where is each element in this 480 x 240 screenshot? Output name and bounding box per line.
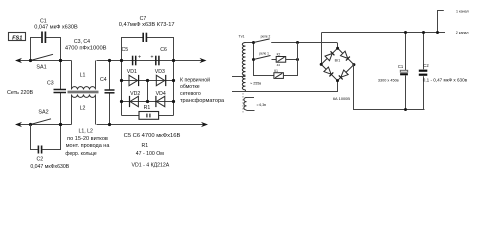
node dot bridge bottom xyxy=(336,79,339,82)
wire capacitor C2 branch xyxy=(423,33,425,110)
node dot bridge top xyxy=(336,47,339,50)
svg-text:Сеть 220В: Сеть 220В xyxy=(7,90,33,96)
svg-text:VD3: VD3 xyxy=(155,69,165,75)
svg-text:обмотке: обмотке xyxy=(180,84,200,90)
wire K1 to return bus xyxy=(283,43,297,76)
switch SA2 xyxy=(31,119,52,125)
svg-text:0,47мкФ х63В К73-17: 0,47мкФ х63В К73-17 xyxy=(119,22,175,28)
node dot C3 top xyxy=(59,59,62,62)
wire diode block right column xyxy=(173,61,175,116)
node dot C1 top xyxy=(404,31,407,34)
svg-text:FS1: FS1 xyxy=(12,35,22,41)
wire transformer bottom AC return xyxy=(232,90,246,92)
resistor R1 wires xyxy=(122,115,174,117)
wire diode block center column xyxy=(147,81,149,102)
svg-text:C1: C1 xyxy=(398,64,404,69)
node dot relay bus middle xyxy=(252,58,255,61)
transformer 6.3v winding xyxy=(244,98,247,110)
bridge diode top-left (anode left, cathode toward top) xyxy=(325,51,334,60)
svg-text:L2: L2 xyxy=(80,105,86,111)
svg-text:VD4: VD4 xyxy=(156,91,166,97)
svg-text:L1, L2: L1, L2 xyxy=(78,129,93,135)
wire K2 to bus xyxy=(286,59,298,61)
wire VD1 VD3 row xyxy=(122,80,174,82)
bridge Br1 diamond xyxy=(321,48,354,80)
wire top mains rail left segment with input arrow xyxy=(15,58,72,63)
svg-text:C2: C2 xyxy=(36,157,43,163)
svg-text:К первичной: К первичной xyxy=(180,77,210,84)
wire primary tap stub xyxy=(232,76,246,78)
wire AC return to bridge xyxy=(246,81,338,92)
wire relay bus vertical xyxy=(254,43,274,76)
svg-text:2 канал: 2 канал xyxy=(456,31,469,35)
relay contact rele2 blade xyxy=(254,39,270,43)
svg-text:C6: C6 xyxy=(160,47,167,53)
svg-text:1 канал: 1 канал xyxy=(456,9,469,13)
wire 6.3v top stub xyxy=(247,97,255,99)
wire rele2 to bridge xyxy=(271,43,337,49)
capacitor C6 plates xyxy=(156,56,159,66)
svg-text:Br1: Br1 xyxy=(335,59,341,63)
svg-text:R1: R1 xyxy=(144,105,151,111)
node dot relay bus top xyxy=(252,41,255,44)
node dot bridge right xyxy=(352,63,355,66)
wire channel 1 stub xyxy=(438,11,444,33)
resistor R1 body xyxy=(139,112,159,120)
node dot C3 bottom xyxy=(59,123,62,126)
capacitor C1 branch wires xyxy=(31,38,61,61)
svg-text:+: + xyxy=(150,54,153,60)
svg-text:К1: К1 xyxy=(274,69,278,73)
node dot C7 left junction xyxy=(120,59,123,62)
svg-text:К2: К2 xyxy=(277,53,281,57)
switch SA1 xyxy=(31,54,54,60)
capacitor C4 vertical wires xyxy=(109,61,111,125)
svg-text:C3, C4: C3, C4 xyxy=(74,39,90,45)
bridge diode bottom-left (anode left, cathode toward bottom) xyxy=(324,67,333,76)
svg-text:0,047 мкФ х630В: 0,047 мкФ х630В xyxy=(34,25,78,31)
capacitor C2 plates xyxy=(38,146,41,154)
svg-text:по 15-20 витков: по 15-20 витков xyxy=(67,136,108,142)
wire top mains rail right segment with output arrow xyxy=(97,58,207,63)
wire bottom mains rail left segment with input arrow xyxy=(15,122,72,127)
node dot C4 top xyxy=(108,59,111,62)
capacitor C2 right plates xyxy=(419,70,428,76)
relay contact rele1 blade xyxy=(254,56,271,60)
svg-text:С5 С6 4700 мкФх16В: С5 С6 4700 мкФх16В xyxy=(124,133,181,139)
svg-text:R1: R1 xyxy=(141,143,148,149)
transformer core dashed xyxy=(242,93,244,113)
node dot VD row2 left xyxy=(120,100,123,103)
node dot bridge left xyxy=(320,63,323,66)
node dot output top xyxy=(172,59,175,62)
diode VD3 xyxy=(156,75,165,86)
svg-text:сетевого: сетевого xyxy=(180,91,201,97)
svg-text:C3: C3 xyxy=(47,81,54,87)
diode VD2 xyxy=(130,96,139,107)
wire VD2 VD4 row xyxy=(122,101,174,103)
capacitor C1 right plates xyxy=(400,70,408,75)
wire C5 C6 row xyxy=(122,60,174,62)
svg-text:С2: С2 xyxy=(423,63,429,68)
svg-text:≈ 255в: ≈ 255в xyxy=(250,81,261,85)
bridge diode bottom-right (cathode toward bottom) xyxy=(339,70,348,79)
svg-text:SA2: SA2 xyxy=(38,109,48,115)
transformer primary winding xyxy=(242,43,245,90)
node dot SA2 right xyxy=(59,123,62,126)
node dot SA2 pivot xyxy=(29,123,32,126)
capacitor C7 branch wires xyxy=(122,38,174,61)
node dot VD row2 right xyxy=(172,100,175,103)
svg-text:C4: C4 xyxy=(100,77,107,83)
relay coil K1 xyxy=(274,73,284,79)
capacitor C3 vertical wires xyxy=(60,61,62,125)
svg-text:4700 пФх1000В: 4700 пФх1000В xyxy=(65,46,107,52)
relay coil K2 xyxy=(276,57,286,63)
svg-text:≈ 6,3в: ≈ 6,3в xyxy=(257,103,267,107)
node dot SA1 pivot xyxy=(29,59,32,62)
svg-text:L1: L1 xyxy=(80,73,86,79)
svg-text:Тv1: Тv1 xyxy=(239,34,245,38)
node dot VD row2 center xyxy=(146,100,149,103)
node dot return bus middle xyxy=(296,58,299,61)
wire diode block left column xyxy=(121,61,123,116)
svg-text:ферр. кольце: ферр. кольце xyxy=(65,151,96,157)
node dot C1 bottom xyxy=(404,108,407,111)
capacitor C4 plates xyxy=(105,90,115,93)
svg-text:0,047 мкФх630В: 0,047 мкФх630В xyxy=(30,164,69,170)
capacitor C3 plates xyxy=(54,90,67,93)
diode VD4 xyxy=(156,96,165,107)
choke core lines xyxy=(68,91,99,93)
svg-text:трансформатора: трансформатора xyxy=(180,98,225,104)
svg-text:VD1: VD1 xyxy=(127,69,137,75)
capacitor C1 plates xyxy=(42,32,45,44)
capacitor C5 plates xyxy=(133,56,136,66)
svg-text:реле 2: реле 2 xyxy=(261,34,271,38)
svg-text:44: 44 xyxy=(277,63,281,67)
node dot feed junction xyxy=(296,41,299,44)
wire bottom mains rail right segment with output arrow xyxy=(97,122,209,127)
wire 6.3v bottom stub xyxy=(247,110,255,112)
svg-text:монт. провода на: монт. провода на xyxy=(66,143,111,149)
bridge diode top-right (anode top, cathode toward right) xyxy=(341,51,350,60)
svg-text:реле 1: реле 1 xyxy=(259,52,269,56)
svg-text:VD2: VD2 xyxy=(130,91,140,97)
wire bridge minus vertical xyxy=(320,33,322,65)
svg-text:6А 1000В: 6А 1000В xyxy=(333,96,350,101)
capacitor C7 plates xyxy=(143,33,146,42)
node dot C4 bottom xyxy=(108,123,111,126)
choke L1 winding xyxy=(72,61,96,90)
wire capacitor C1 branch xyxy=(405,33,407,110)
svg-text:3300 х 450в: 3300 х 450в xyxy=(378,78,399,82)
choke L2 winding xyxy=(72,95,96,125)
node dot channel stub xyxy=(436,31,439,34)
node dot SA1 right xyxy=(59,59,62,62)
wire top dc rail xyxy=(322,32,446,34)
node dot VD row1 right xyxy=(172,79,175,82)
capacitor C2 branch wires xyxy=(31,125,61,150)
svg-text:+: + xyxy=(138,54,141,60)
svg-text:C1: C1 xyxy=(40,19,47,25)
svg-text:0,1 - 0,47 мкФ х 630в: 0,1 - 0,47 мкФ х 630в xyxy=(423,77,468,82)
node dot VD row1 center xyxy=(146,79,149,82)
wire transformer top to relay bus xyxy=(246,42,254,44)
svg-text:C5: C5 xyxy=(121,47,128,53)
svg-text:47 - 100 Ом: 47 - 100 Ом xyxy=(136,151,165,157)
svg-text:VD1 - 4 КД212А: VD1 - 4 КД212А xyxy=(132,163,170,169)
node dot C2 top xyxy=(422,31,425,34)
fuse FS1 box xyxy=(9,33,26,42)
node dot VD row1 left xyxy=(120,79,123,82)
diode VD1 xyxy=(129,75,139,86)
wire bridge plus to bottom rail xyxy=(354,65,425,110)
svg-text:SA1: SA1 xyxy=(36,65,46,71)
wire rele1 to coil K2 xyxy=(272,59,277,61)
